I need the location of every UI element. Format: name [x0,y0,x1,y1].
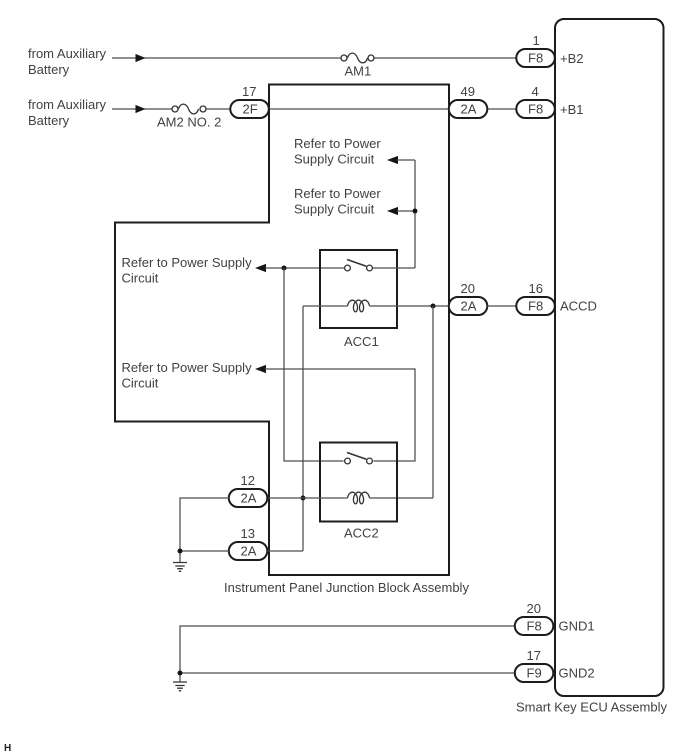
relay ACC2 box [320,443,397,541]
wire row1 from battery to F8 pin 1 [112,57,517,59]
fuse AM2 NO. 2 [157,104,221,129]
svg-text:1: 1 [533,33,540,48]
svg-text:2A: 2A [241,544,257,559]
junction dot at (433,306) [431,304,436,309]
svg-text:2F: 2F [243,102,258,117]
svg-text:Refer to Power: Refer to Power [294,136,381,151]
wire 13/2A left to ground [180,551,229,562]
wire 2A(49) to F8(4) [487,108,517,110]
svg-text:2A: 2A [461,299,477,314]
ACC1 coil right wire to 2A(20) [370,305,450,307]
svg-text:16: 16 [529,281,543,296]
junction dot at (284,268) [282,266,287,271]
svg-text:from Auxiliary: from Auxiliary [28,46,107,61]
svg-text:20: 20 [527,601,541,616]
svg-text:Circuit: Circuit [122,271,159,286]
svg-text:13: 13 [241,526,255,541]
svg-text:F8: F8 [527,619,542,634]
fuse AM1 [341,53,374,78]
wire 13/2A right to vertical x=303 [268,550,304,552]
connector oval F8 (pin 16) [516,281,555,315]
arrowhead on row2 battery feed [136,105,146,113]
svg-text:ACC2: ACC2 [344,526,379,541]
refer to power supply circuit #4 text (left lower) [122,360,253,391]
connector oval F8 (pin 4) [516,84,555,118]
connector oval F8 (pin 20, GND1) [515,601,554,635]
svg-text:+B1: +B1 [560,102,584,117]
relay ACC1 box [320,250,397,349]
svg-text:GND2: GND2 [559,666,595,681]
ACC1 switch right wire [373,267,415,269]
svg-text:AM1: AM1 [345,64,372,79]
vertical wire x=415 from refer arrows to ACC1 switch [414,160,416,268]
ground symbol (junction block) [173,563,187,572]
svg-text:Instrument Panel Junction Bloc: Instrument Panel Junction Block Assembly [224,580,469,595]
junction dot at (303,498) [301,496,306,501]
svg-text:Supply Circuit: Supply Circuit [294,152,375,167]
svg-text:AM2 NO. 2: AM2 NO. 2 [157,115,221,130]
wire row2 from battery to fuse AM2 [112,108,231,110]
wire 12/2A to ACC2 coil left [268,497,348,499]
wire row2 inside block (2F to 2A) [268,108,449,110]
svg-text:Battery: Battery [28,113,70,128]
svg-text:F8: F8 [528,51,543,66]
connector oval F8 (pin 1) [516,33,555,67]
svg-text:Refer to Power: Refer to Power [294,186,381,201]
svg-text:4: 4 [532,84,539,99]
svg-text:Battery: Battery [28,62,70,77]
svg-text:49: 49 [461,84,475,99]
Smart Key ECU Assembly box [516,19,667,715]
wire GND1 from F8(20) to left vertical [180,626,517,673]
svg-text:Refer to Power Supply: Refer to Power Supply [122,255,253,270]
svg-text:GND1: GND1 [559,619,595,634]
connector oval 2F (pin 17) [230,84,268,118]
arrowhead on row1 battery feed [136,54,146,62]
svg-text:17: 17 [527,648,541,663]
connector oval 2A (pin 12) [229,473,267,507]
arrow + wire refer #3 to ACC1 switch left [255,264,344,272]
connector oval 2A (pin 49) [449,84,488,118]
svg-text:from Auxiliary: from Auxiliary [28,97,107,112]
junction dot at (181,551) [178,549,183,554]
svg-text:Circuit: Circuit [122,376,159,391]
node: from Auxiliary Battery (row2) [28,97,107,128]
refer to power supply circuit #1 text [294,136,381,167]
wire 2A(20) to F8(16) [487,305,517,307]
svg-text:F9: F9 [527,666,542,681]
ground symbol (ECU grounds) [173,682,187,691]
ACC2 coil [348,492,370,504]
svg-text:2A: 2A [461,102,477,117]
svg-text:20: 20 [461,281,475,296]
vertical wire x=284 to ACC2 switch left [284,268,344,461]
svg-text:Smart Key ECU Assembly: Smart Key ECU Assembly [516,700,667,715]
connector oval F9 (pin 17, GND2) [515,648,554,682]
junction dot at (415,211) [413,209,418,214]
arrow + wire refer #1 [387,156,415,164]
ACC1 coil left wire to vertical x=303 [303,305,348,307]
ACC1 coil [348,300,370,312]
Instrument Panel Junction Block Assembly outline [115,85,469,596]
svg-text:+B2: +B2 [560,51,584,66]
svg-text:Supply Circuit: Supply Circuit [294,202,375,217]
svg-text:2A: 2A [241,491,257,506]
connector oval 2A (pin 13) [229,526,267,560]
vertical wire x=303 from ACC1 coil to 13/2A wire [302,306,304,551]
svg-text:ACCD: ACCD [560,299,597,314]
svg-text:12: 12 [241,473,255,488]
svg-text:F8: F8 [528,299,543,314]
svg-text:ACC1: ACC1 [344,334,379,349]
arrow + wire refer #4 to ACC2 switch right [255,365,415,461]
junction dot at (180,673) [178,671,183,676]
wire 12/2A left down to 13/2A wire [180,498,229,551]
svg-text:17: 17 [242,84,256,99]
refer to power supply circuit #3 text (left) [122,255,253,286]
refer to power supply circuit #2 text [294,186,381,217]
vertical wire x=433 down to ACC2 coil right [370,306,434,498]
svg-text:H: H [4,743,11,754]
ACC2 switch contact [345,453,373,464]
svg-text:F8: F8 [528,102,543,117]
svg-text:Refer to Power Supply: Refer to Power Supply [122,360,253,375]
wire GND2 from F9(17) to left vertical [180,673,517,682]
ACC1 switch contact [345,260,373,271]
arrow + wire refer #2 [387,207,415,215]
connector oval 2A (pin 20) [449,281,488,315]
node: from Auxiliary Battery (row1) [28,46,107,77]
